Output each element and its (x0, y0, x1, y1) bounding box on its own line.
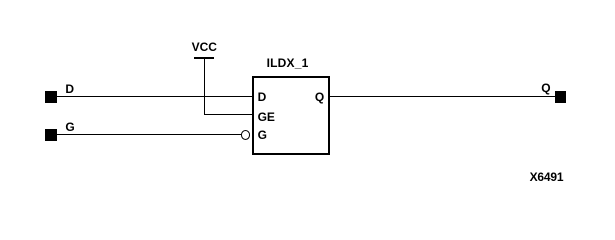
wire D: input pad to pin D of U1 (57, 96, 253, 97)
figure number X6491 (530, 171, 564, 183)
instance name ILDX_1 (267, 57, 309, 69)
terminal square G (input pad) (45, 129, 57, 141)
terminal square D (input pad) (45, 91, 57, 103)
net label D (65, 83, 74, 95)
latch symbol U1 body (252, 76, 331, 155)
wire Q: pin Q of U1 to output pad (330, 96, 555, 97)
power symbol VCC (192, 41, 217, 53)
VCC rail bar (194, 57, 215, 59)
inverter bubble on pin G (241, 130, 251, 140)
net label G (65, 121, 74, 133)
wire GE: VCC drop to pin GE of U1 (204, 114, 252, 115)
pin label G (258, 129, 267, 141)
wire G: input pad to inverter bubble (57, 134, 242, 135)
net label Q (541, 82, 550, 94)
pin label GE (258, 111, 275, 123)
pin label D (258, 91, 267, 103)
wire VCC: rail down to GE wire (204, 59, 205, 115)
pin label Q (315, 91, 324, 103)
terminal square Q (output pad) (555, 91, 566, 103)
